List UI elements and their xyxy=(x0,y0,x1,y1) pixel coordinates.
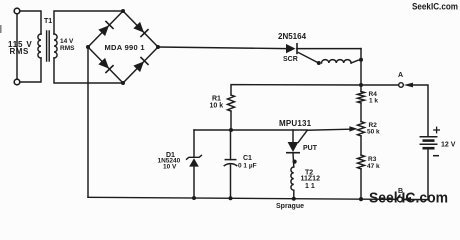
svg-text:B: B xyxy=(398,188,403,195)
scan edge artifact xyxy=(0,25,2,33)
wire secondary bottom to bridge bottom vertex xyxy=(54,58,123,83)
transformer T1 secondary winding xyxy=(54,34,57,58)
wire gate to R2 wiper xyxy=(307,129,349,130)
svg-text:47 k: 47 k xyxy=(367,163,380,170)
bridge edge left-bottom xyxy=(88,47,123,83)
battery BT1 12V plates xyxy=(420,136,436,138)
node C1 bottom xyxy=(229,196,233,200)
transformer T1 primary winding xyxy=(38,34,41,58)
PUT cathode bar xyxy=(287,152,299,154)
arrow into terminal B xyxy=(403,197,411,202)
transformer T1 core xyxy=(46,31,48,61)
bridge diode D-LB (left to bottom) xyxy=(98,58,113,73)
terminal B circle xyxy=(398,197,403,202)
wire R3 bottom to rail xyxy=(360,169,362,199)
wire T2 bottom to rail xyxy=(293,190,295,199)
svg-text:A: A xyxy=(398,72,403,79)
svg-text:1 1: 1 1 xyxy=(305,183,315,190)
svg-text:MPU131: MPU131 xyxy=(279,119,312,128)
svg-text:50 k: 50 k xyxy=(367,129,380,136)
svg-text:SCR: SCR xyxy=(283,56,298,63)
label battery plus xyxy=(433,127,440,134)
wire PUT cathode to T2 xyxy=(292,153,295,167)
svg-text:0 1 µF: 0 1 µF xyxy=(238,163,257,170)
node bridge left vertex xyxy=(86,45,90,49)
wire R2 to R3 xyxy=(360,136,362,155)
node D1 bottom xyxy=(192,196,196,200)
wire bottom terminal to primary xyxy=(20,58,41,82)
svg-text:RMS: RMS xyxy=(10,47,29,56)
bridge edge bottom-right xyxy=(123,47,158,83)
PUT triangle xyxy=(288,142,299,152)
inductor T2 gate winding xyxy=(322,60,352,63)
resistor R3 47k xyxy=(358,155,365,169)
terminal A circle xyxy=(399,83,404,88)
wire A to battery top xyxy=(411,85,429,136)
arrow R2 wiper xyxy=(349,126,357,131)
svg-text:11Z12: 11Z12 xyxy=(301,176,321,183)
wire cathode corner down to divider xyxy=(360,49,362,92)
node R3 bottom xyxy=(359,197,363,201)
wire mid rail R1 top to cathode column xyxy=(231,85,361,95)
node T2 primary polarity dot xyxy=(293,160,297,164)
node coil junction xyxy=(359,58,363,62)
bridge edge left-top xyxy=(88,11,123,47)
PUT gate lead xyxy=(298,130,307,142)
terminal 115V top xyxy=(14,8,20,14)
svg-text:R3: R3 xyxy=(368,156,377,163)
svg-text:14 V: 14 V xyxy=(60,38,74,45)
wire secondary top to bridge top rail xyxy=(54,11,123,34)
wire junction to terminal A xyxy=(361,84,398,86)
wire R4 to R2 xyxy=(360,103,362,122)
SCR Q1 2N5164 xyxy=(286,44,296,53)
svg-text:Sprague: Sprague xyxy=(276,203,304,210)
PUT Q2 MPU131 anode lead xyxy=(292,130,294,142)
wire battery bottom to rail xyxy=(427,149,429,199)
node bridge bottom vertex xyxy=(121,81,125,85)
wire anode rail from D1 to PUT and R2 wiper xyxy=(194,129,307,131)
wire bridge left vertex down to bottom rail xyxy=(87,47,89,197)
zener D1 1N5240 xyxy=(193,130,195,157)
resistor R4 1k xyxy=(358,92,365,104)
node bridge top vertex xyxy=(121,9,125,13)
svg-text:1 k: 1 k xyxy=(369,98,378,105)
svg-text:C1: C1 xyxy=(243,155,252,162)
node R1/C1/anode junction xyxy=(229,128,233,132)
arrow into terminal A xyxy=(404,83,413,88)
terminal 115V bottom xyxy=(14,79,20,85)
svg-text:10 V: 10 V xyxy=(163,164,177,171)
svg-text:SeekIC.com: SeekIC.com xyxy=(412,2,458,12)
resistor R1 10k xyxy=(228,95,235,111)
svg-text:PUT: PUT xyxy=(303,145,318,152)
wire between terminals xyxy=(16,14,18,79)
svg-text:MDA 990 1: MDA 990 1 xyxy=(105,43,145,52)
svg-text:10 k: 10 k xyxy=(210,103,224,110)
svg-text:2N5164: 2N5164 xyxy=(278,32,307,41)
wire top terminal to primary xyxy=(20,11,41,34)
bridge diode D-LT (left to top) xyxy=(98,21,113,36)
wire winding to cathode column xyxy=(351,60,361,63)
wire bottom rail xyxy=(88,197,428,199)
label battery minus xyxy=(433,155,439,157)
bridge edge top-right xyxy=(123,11,158,47)
wire bridge right vertex to SCR anode xyxy=(158,47,286,49)
wire SCR gate lead xyxy=(299,53,318,63)
svg-text:RMS: RMS xyxy=(60,45,75,52)
inductor T2 primary winding xyxy=(291,167,294,190)
svg-text:12 V: 12 V xyxy=(441,142,456,149)
node rail junction at R4 top xyxy=(359,83,363,87)
bridge diode D-BR (bottom to right) xyxy=(133,57,148,72)
node T2 bottom xyxy=(292,197,296,201)
svg-text:R1: R1 xyxy=(212,96,221,103)
node bridge right vertex xyxy=(156,45,160,49)
node T2 winding polarity dot xyxy=(317,61,321,65)
svg-text:T1: T1 xyxy=(44,18,52,25)
resistor R2 50k potentiometer xyxy=(358,122,365,136)
wire SCR cathode to right corner xyxy=(297,48,361,50)
wire R1 bottom to anode node xyxy=(230,111,232,130)
capacitor C1 0.1uF xyxy=(230,130,232,160)
bridge diode D-TR (top to right) xyxy=(133,22,148,37)
